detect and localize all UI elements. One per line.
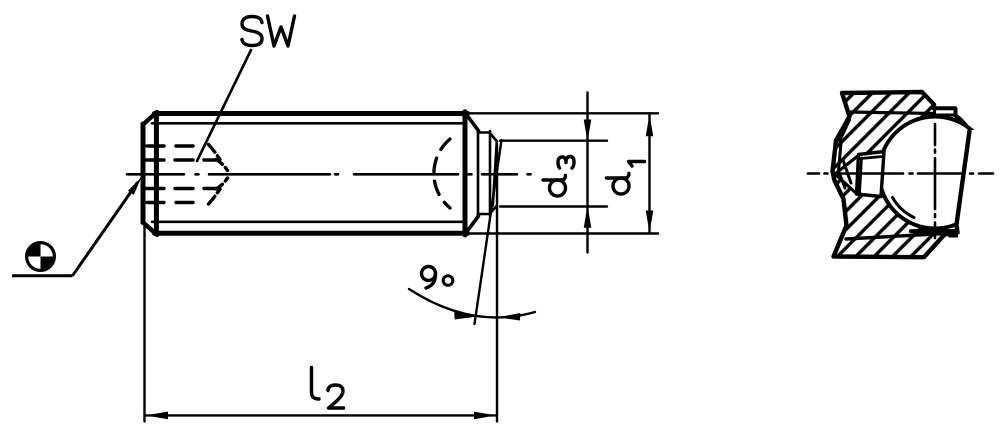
l2 extension left	[143, 226, 145, 422]
d3 arrow top (pointing down)	[584, 120, 592, 142]
top-left chamfer	[143, 112, 157, 125]
top right tab white window	[935, 109, 956, 115]
centerline main view	[127, 173, 531, 176]
left silhouette inner double line upper	[840, 120, 850, 141]
right end face	[463, 112, 468, 235]
body top edge	[155, 111, 468, 116]
hex socket hidden line row C	[146, 187, 216, 190]
l2 dimension line	[145, 414, 498, 416]
thread line bottom	[152, 220, 463, 223]
tip diagonal bottom	[490, 206, 498, 215]
socket quad inner left edge	[860, 158, 862, 193]
d1 arrow bottom (pointing down)	[646, 211, 654, 233]
d1 extension top	[468, 112, 658, 114]
body bottom edge	[155, 231, 468, 236]
label SW	[242, 16, 295, 46]
point top edge	[478, 131, 490, 134]
d3 arrow bottom (pointing up)	[584, 206, 592, 228]
hex socket cone diagonal upper	[216, 160, 228, 171]
hex socket cone diagonal lower	[216, 178, 228, 189]
socket quad inner top edge	[861, 157, 882, 159]
bottom-left chamfer	[143, 222, 157, 235]
socket cone white triangle	[835, 155, 859, 194]
right view vertical centerline	[934, 124, 937, 238]
d1 extension bottom	[468, 232, 658, 234]
datum leader arrowhead	[128, 177, 142, 195]
angle arc arrow right	[498, 313, 520, 321]
bottom rim thick bar	[911, 229, 954, 233]
hex socket corner diagonal bottom	[209, 189, 221, 204]
d3 extension bottom	[500, 205, 607, 207]
inner cup arc bottom left	[893, 198, 915, 218]
9 deg taper extension line	[475, 140, 502, 324]
bottom band inner edge	[846, 234, 944, 240]
point edge vertical	[477, 131, 480, 217]
top band inner edge	[850, 112, 934, 114]
d1 arrow top (pointing up)	[646, 114, 654, 136]
point chamfer bottom	[466, 216, 479, 233]
cup rim vertical	[489, 131, 492, 216]
label d3	[543, 157, 574, 197]
white sliver beyond right chord	[956, 130, 994, 226]
cone inner diagonal	[843, 160, 851, 183]
datum leader baseline	[12, 274, 73, 277]
l2 arrow left	[146, 412, 169, 420]
d3 extension top	[500, 139, 607, 141]
left end face	[141, 124, 146, 223]
d3 dimension line	[586, 93, 588, 253]
bottom right tab	[949, 232, 959, 238]
cup taper edge	[493, 142, 497, 206]
angle dimension arc	[409, 289, 535, 317]
point bottom edge	[478, 213, 490, 216]
hex socket hidden line row D	[147, 201, 197, 204]
l2 arrow right	[474, 412, 496, 420]
datum leader diagonal	[73, 183, 138, 276]
socket quad window	[857, 152, 885, 197]
point chamfer top	[466, 114, 479, 131]
hex socket corner diagonal top	[209, 145, 221, 160]
right view horizontal centerline	[808, 172, 993, 175]
thread line top	[152, 122, 463, 125]
SW leader line	[197, 50, 251, 161]
d1 dimension line	[648, 113, 650, 233]
hidden cup sphere dashed arc	[434, 139, 450, 208]
label 9 deg	[422, 267, 453, 289]
label l2	[312, 368, 344, 409]
left chamfer circle edge	[154, 113, 159, 234]
label d1	[607, 162, 645, 195]
hex socket hidden line row A	[147, 144, 197, 147]
hatched silhouette	[833, 92, 970, 257]
hex socket hidden line row B	[146, 158, 216, 161]
cup dome circle	[879, 117, 991, 229]
right chord edge	[957, 131, 970, 225]
l2 extension right / angle vertical line	[496, 145, 498, 422]
tip diagonal top	[490, 133, 498, 142]
center of mass symbol	[26, 242, 55, 271]
angle arc arrow left	[454, 312, 476, 320]
left silhouette inner double line	[839, 143, 846, 188]
